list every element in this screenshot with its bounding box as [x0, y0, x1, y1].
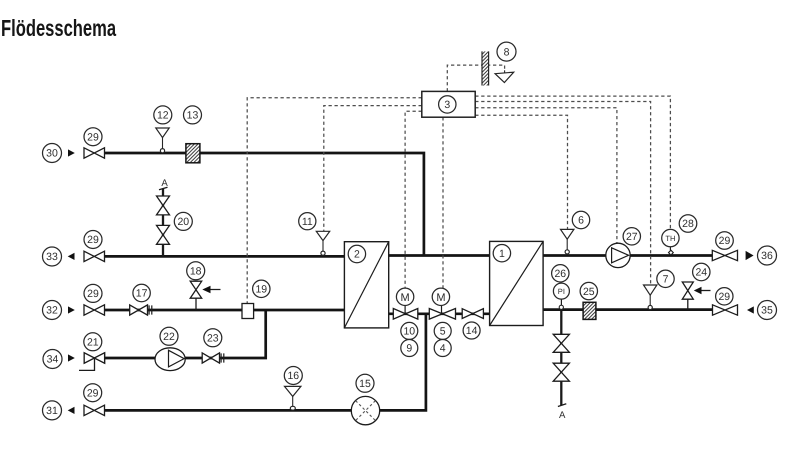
svg-text:26: 26 [554, 268, 566, 280]
svg-text:TH: TH [665, 234, 675, 243]
svg-text:16: 16 [287, 370, 299, 382]
svg-text:28: 28 [682, 218, 694, 230]
svg-text:34: 34 [47, 354, 59, 366]
svg-text:29: 29 [718, 291, 730, 303]
svg-text:8: 8 [504, 46, 510, 58]
svg-text:32: 32 [46, 305, 58, 317]
svg-text:29: 29 [87, 234, 99, 246]
svg-text:19: 19 [255, 284, 267, 296]
svg-text:27: 27 [626, 231, 638, 243]
svg-text:3: 3 [444, 99, 450, 111]
svg-text:30: 30 [46, 148, 58, 160]
svg-text:M: M [401, 292, 410, 304]
svg-text:15: 15 [359, 378, 371, 390]
svg-text:7: 7 [663, 274, 669, 286]
svg-text:24: 24 [695, 267, 707, 279]
svg-text:M: M [436, 292, 445, 304]
svg-text:5: 5 [440, 326, 446, 338]
svg-text:25: 25 [583, 286, 595, 298]
svg-text:18: 18 [190, 266, 202, 278]
svg-text:21: 21 [87, 337, 99, 349]
svg-text:20: 20 [177, 216, 189, 228]
svg-text:23: 23 [207, 333, 219, 345]
svg-text:29: 29 [87, 288, 99, 300]
svg-text:6: 6 [578, 215, 584, 227]
svg-text:13: 13 [187, 110, 199, 122]
svg-text:2: 2 [354, 249, 360, 261]
svg-text:35: 35 [761, 305, 773, 317]
svg-text:PI: PI [558, 287, 565, 296]
svg-text:14: 14 [466, 325, 478, 337]
svg-text:22: 22 [163, 331, 175, 343]
svg-text:33: 33 [46, 251, 58, 263]
svg-text:29: 29 [719, 235, 731, 247]
svg-text:29: 29 [87, 387, 99, 399]
svg-text:10: 10 [403, 326, 415, 338]
svg-text:4: 4 [440, 343, 446, 355]
svg-text:A: A [161, 178, 168, 189]
svg-text:12: 12 [157, 110, 169, 122]
svg-text:11: 11 [302, 216, 313, 228]
svg-text:A: A [559, 410, 566, 421]
svg-text:17: 17 [136, 288, 148, 300]
svg-text:1: 1 [499, 248, 505, 260]
svg-text:36: 36 [761, 250, 773, 262]
svg-text:29: 29 [87, 131, 99, 143]
svg-text:31: 31 [46, 405, 58, 417]
svg-text:9: 9 [406, 343, 412, 355]
